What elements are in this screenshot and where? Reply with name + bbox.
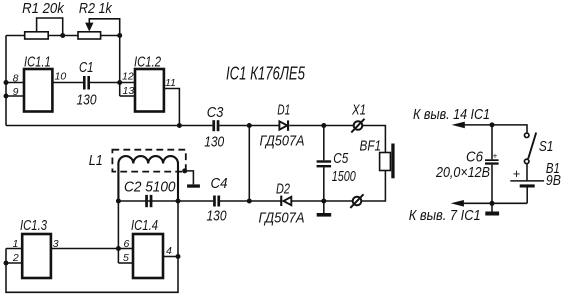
diode D2 [284, 197, 292, 205]
svg-text:1: 1 [12, 238, 18, 250]
wire: R2 right terminal [101, 35, 120, 37]
wire: row 2 segment coil to C4 [118, 200, 213, 202]
wire: BF1 bottom to row 2 [361, 171, 385, 202]
svg-text:+: + [513, 166, 521, 181]
node: pin 12 junction [117, 80, 122, 85]
node: pin 2 junction [4, 261, 9, 266]
wire: D2 to C5 bottom node [292, 200, 324, 202]
wire: pin 5 stub [118, 262, 133, 264]
svg-text:130: 130 [77, 92, 98, 109]
speaker BF1 [380, 153, 391, 171]
node at pin 8 [4, 80, 9, 85]
wire: C1 to pin 12 node [90, 82, 135, 84]
ground for shield [187, 184, 200, 187]
wire: top row from left vertical to R1 [6, 35, 25, 37]
wire: D1 to C5 node [289, 125, 353, 127]
wire: vertical from coil left down to pins 5/6 [117, 201, 119, 263]
wire: pin 13 stub [120, 95, 135, 97]
capacitor C3 [212, 120, 215, 131]
svg-text:BF1: BF1 [360, 137, 382, 154]
svg-text:9В: 9В [546, 172, 561, 189]
wire: vertical joining row1 and row2 [248, 126, 250, 202]
inductor L1 coil [118, 156, 178, 201]
svg-text:9: 9 [13, 86, 19, 98]
svg-text:C4: C4 [211, 175, 228, 192]
node: C4/D2/vertical junction [247, 199, 252, 204]
wire: vertical from R2 wiper down to pin 12/13 node [119, 36, 121, 97]
wire: top supply with arrow [462, 125, 527, 133]
op-amp gate IC1.3 [22, 234, 51, 278]
svg-text:130: 130 [204, 133, 225, 150]
svg-text:S1: S1 [539, 138, 554, 155]
wire: row 2 segment C4 to D2 [220, 200, 281, 202]
svg-text:К выв. 7 IC1: К выв. 7 IC1 [409, 207, 481, 224]
resistor R2 (trimmer) [78, 32, 101, 39]
svg-text:130: 130 [207, 208, 228, 225]
svg-text:10: 10 [55, 71, 67, 83]
wire: pin 11 output [164, 89, 180, 126]
node: coil right / row2 junction [176, 199, 181, 204]
svg-text:L1: L1 [89, 152, 103, 169]
node: pin 6 junction [116, 246, 121, 251]
wire: switch to battery [526, 164, 528, 181]
diode D1 [279, 121, 287, 129]
connector X1 top [354, 121, 363, 130]
wire: pin 3 output to pin 6 node [51, 248, 119, 250]
wire: R2 wiper line [89, 19, 119, 36]
wire: row 2 from C5 node to X1 bottom [324, 200, 353, 202]
wire: C3 to D1 [219, 125, 279, 127]
R2 wiper arrowhead [85, 23, 93, 32]
op-amp gate IC1.1 [24, 69, 52, 112]
wire: row 1 main bus [6, 125, 212, 127]
svg-text:C5: C5 [333, 150, 349, 167]
node: coil left / row2 junction [116, 199, 121, 204]
node: pin 11 joins row 1 [177, 123, 182, 128]
wire: left vertical column [5, 36, 7, 126]
svg-text:IC1.3: IC1.3 [20, 217, 47, 234]
svg-text:IC1.1: IC1.1 [24, 54, 51, 71]
node: C6 top junction [490, 122, 495, 127]
wire: X1 top to BF1 [362, 126, 385, 153]
svg-text:IC1.4: IC1.4 [131, 217, 158, 234]
wire: bottom supply with arrow [461, 202, 527, 204]
wire: pin 4 output [163, 256, 178, 258]
node: R2 right junction [117, 33, 122, 38]
svg-text:D1: D1 [277, 102, 290, 119]
svg-text:C6: C6 [466, 149, 484, 166]
svg-text:+: + [493, 151, 498, 161]
svg-text:5: 5 [123, 252, 129, 264]
svg-text:12: 12 [122, 71, 134, 83]
wire: pin 10 to C1 [52, 82, 83, 84]
capacitor C4 [213, 196, 216, 207]
svg-text:IC1 К176ЛЕ5: IC1 К176ЛЕ5 [226, 64, 306, 84]
svg-text:К выв. 14 IC1: К выв. 14 IC1 [413, 106, 490, 123]
svg-text:3: 3 [53, 238, 59, 250]
battery B1 [510, 180, 544, 182]
wire: pin 9 stub [6, 95, 24, 97]
svg-text:R1 20k: R1 20k [22, 0, 65, 17]
ground under C5 node [323, 201, 325, 213]
svg-text:C3: C3 [207, 104, 224, 121]
capacitor C1 [83, 76, 86, 90]
node: pin 4 junction [176, 254, 181, 259]
wire: R1 wiper bracket [37, 18, 63, 36]
svg-text:8: 8 [13, 73, 19, 85]
op-amp gate IC1.4 [133, 234, 163, 278]
wire: pin 1 stub [6, 248, 22, 250]
svg-text:11: 11 [165, 77, 176, 89]
node: C6 bottom junction [490, 201, 495, 206]
svg-text:20,0×12В: 20,0×12В [435, 164, 490, 181]
wire: pin 6 stub [118, 248, 133, 250]
capacitor C6 electrolytic [491, 125, 493, 159]
node at pin 9 [4, 94, 9, 99]
svg-text:ГД507А: ГД507А [260, 133, 305, 150]
node: C3/D1/vertical junction [247, 123, 252, 128]
switch S1 [524, 133, 529, 138]
svg-text:4: 4 [166, 245, 172, 257]
wire: R1 right terminal to junction [48, 35, 78, 37]
svg-text:C2 5100: C2 5100 [124, 179, 176, 196]
svg-text:C1: C1 [79, 59, 94, 76]
svg-text:ГД507А: ГД507А [259, 210, 305, 227]
wire: vertical coil right down + bottom feedback + left up [6, 201, 178, 292]
svg-text:1500: 1500 [332, 168, 356, 185]
node: shield connection [182, 168, 187, 173]
svg-text:IC1.2: IC1.2 [134, 54, 161, 71]
wire: pin 2 stub [6, 262, 22, 264]
capacitor C5 [323, 126, 325, 161]
svg-text:13: 13 [123, 85, 135, 97]
svg-text:R2 1k: R2 1k [79, 0, 113, 17]
capacitor C2 [145, 195, 148, 207]
node: C5 bottom junction [321, 199, 326, 204]
svg-text:X1: X1 [351, 102, 366, 119]
wire: pin 8 stub [6, 82, 24, 84]
op-amp gate IC1.2 [135, 69, 164, 112]
L1 shield dashed box [112, 150, 185, 172]
connector X1 bottom [353, 197, 362, 206]
wire: shield to ground [185, 171, 194, 185]
resistor R1 [25, 32, 49, 39]
ground at battery minus [491, 203, 493, 211]
node: R1 wiper / R2 left junction [60, 33, 65, 38]
svg-text:6: 6 [124, 238, 130, 250]
svg-text:2: 2 [12, 252, 19, 264]
svg-text:D2: D2 [276, 181, 290, 198]
node: C5 top junction [321, 123, 326, 128]
